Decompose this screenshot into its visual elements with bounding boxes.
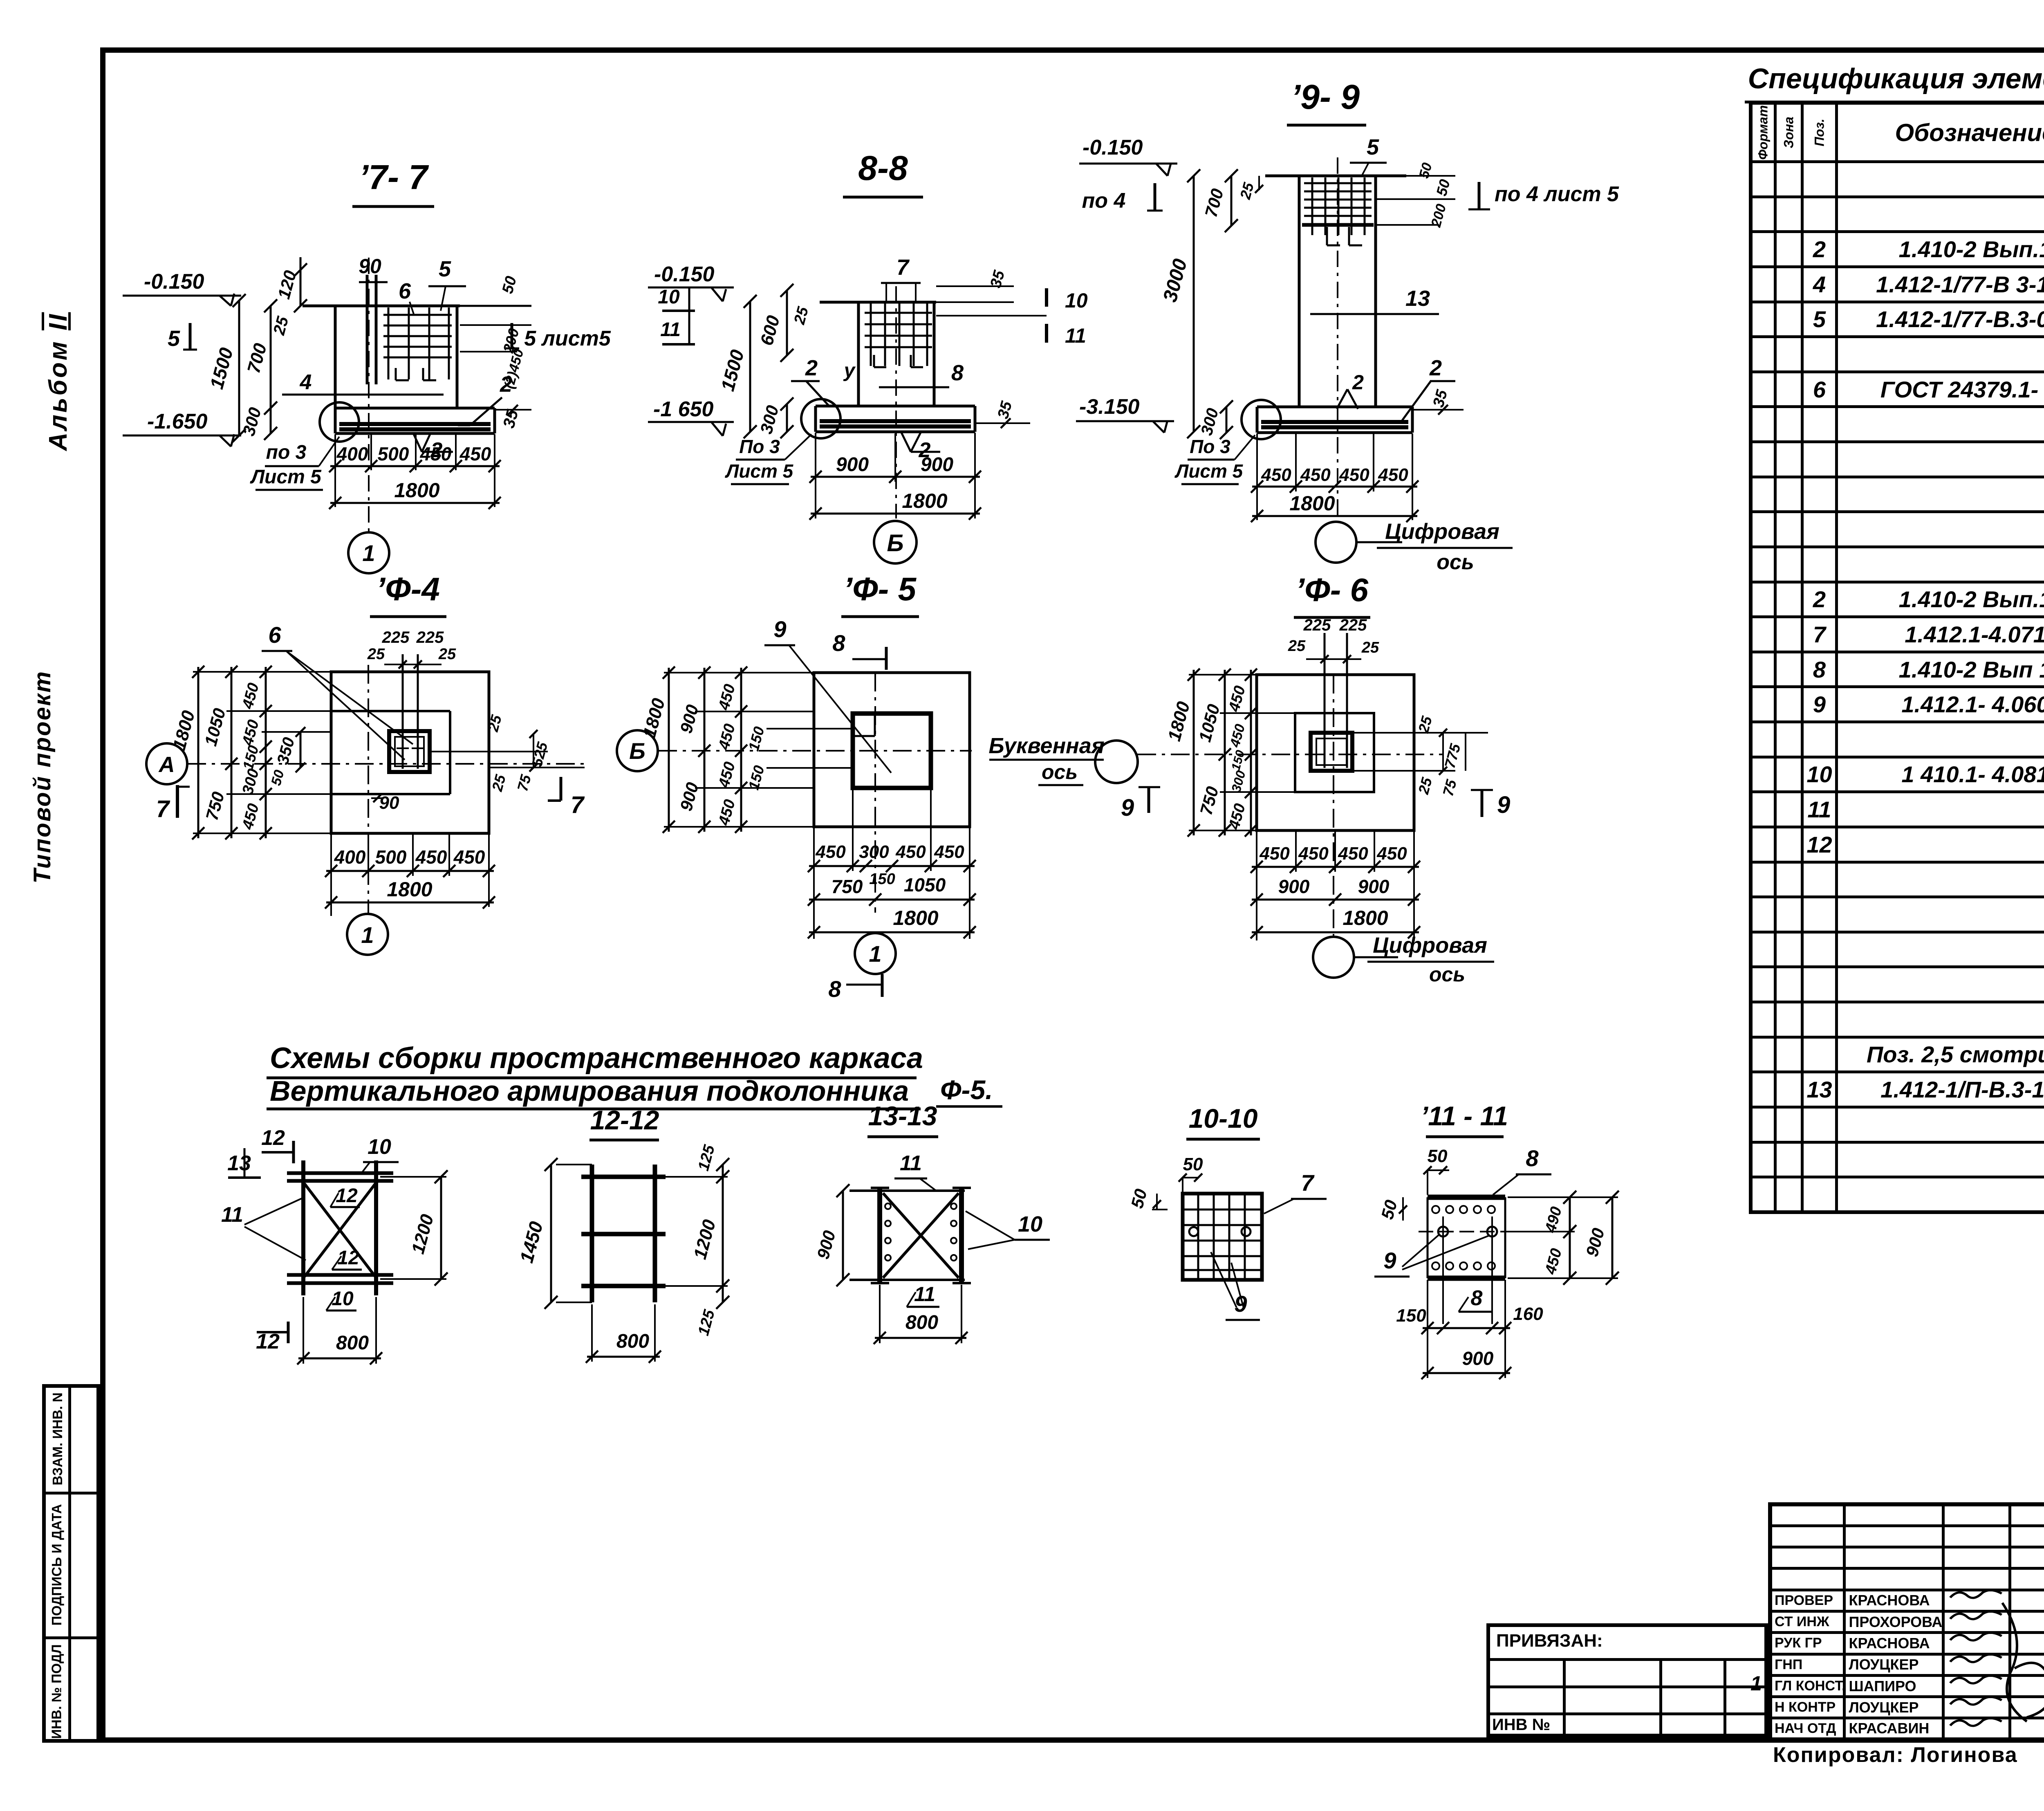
section 7 flag right xyxy=(560,777,563,801)
section 7-7 column rebar cage xyxy=(383,314,452,316)
scheme 11-11 top plate xyxy=(1428,1195,1505,1200)
svg-text:800: 800 xyxy=(336,1332,369,1354)
left strip caption: ВЗАМ.ИНВ.N xyxy=(50,1378,65,1500)
svg-text:750: 750 xyxy=(1196,784,1222,817)
left dim ladder 900 900 xyxy=(704,668,706,832)
plan Ф-4 horizontal axis xyxy=(187,763,585,765)
left dimension 120/25 xyxy=(300,257,302,306)
svg-text:ʼ7- 7: ʼ7- 7 xyxy=(359,158,429,196)
svg-text:50: 50 xyxy=(1433,177,1453,197)
left margin inventory strip table xyxy=(42,1384,100,1743)
section 9-9 axis xyxy=(1337,157,1338,520)
svg-text:5: 5 xyxy=(439,257,451,281)
svg-text:125: 125 xyxy=(695,1308,718,1337)
svg-text:25: 25 xyxy=(1288,637,1306,655)
dim 300 xyxy=(1226,407,1228,433)
svg-text:7: 7 xyxy=(896,255,910,280)
scheme 12-12 ladder xyxy=(515,1105,729,1363)
svg-text:7: 7 xyxy=(1301,1170,1315,1196)
section cut flag 7 below circle А xyxy=(176,785,179,818)
title block: ПРИВЯЗАН table xyxy=(1486,1623,1768,1737)
svg-text:160: 160 xyxy=(1513,1304,1543,1324)
plan Ф-4 anchor bolts xyxy=(402,654,404,769)
scheme A dim 1200 xyxy=(440,1177,442,1279)
svg-text:900: 900 xyxy=(1358,876,1390,897)
svg-text:1: 1 xyxy=(361,922,374,948)
svg-text:450: 450 xyxy=(239,681,262,711)
svg-text:50: 50 xyxy=(1127,1187,1150,1210)
svg-text:300: 300 xyxy=(756,403,782,436)
dim chain 900 900 xyxy=(811,476,980,478)
svg-text:450: 450 xyxy=(934,842,964,862)
svg-text:900: 900 xyxy=(676,780,702,813)
svg-text:по 4: по 4 xyxy=(1082,189,1126,213)
150 leaders into column xyxy=(766,728,853,729)
left strip caption: ИНВ. № ПОДЛ xyxy=(49,1629,65,1754)
scheme 11-11 xyxy=(1374,1101,1619,1379)
bottom dim chain 450 x4 xyxy=(1252,866,1419,868)
svg-text:9: 9 xyxy=(773,616,786,642)
svg-text:10: 10 xyxy=(1065,289,1088,312)
left margin caption: Альбом II xyxy=(44,283,75,480)
svg-text:8: 8 xyxy=(832,630,845,656)
svg-text:25: 25 xyxy=(1361,639,1379,656)
svg-text:4: 4 xyxy=(300,370,312,394)
svg-text:ʼ11 - 11: ʼ11 - 11 xyxy=(1421,1101,1508,1131)
svg-text:-3.150: -3.150 xyxy=(1079,395,1140,419)
svg-text:450: 450 xyxy=(715,722,739,752)
svg-text:900: 900 xyxy=(1462,1348,1494,1369)
svg-text:450: 450 xyxy=(1226,684,1249,714)
plan Ф-6 step contour xyxy=(1295,713,1374,792)
svg-text:450: 450 xyxy=(415,846,447,868)
svg-text:490: 490 xyxy=(1542,1205,1565,1235)
svg-text:ʼ9- 9: ʼ9- 9 xyxy=(1291,78,1360,116)
scheme 12-12 dim 800 xyxy=(587,1356,660,1358)
plan Ф-4 outer footing square xyxy=(331,672,489,833)
svg-text:450: 450 xyxy=(715,682,739,712)
35 mark right xyxy=(1412,409,1464,411)
svg-text:12-12: 12-12 xyxy=(590,1105,659,1135)
svg-text:750: 750 xyxy=(831,876,863,897)
svg-text:500: 500 xyxy=(375,846,407,868)
svg-text:1: 1 xyxy=(869,941,881,967)
svg-text:1800: 1800 xyxy=(1342,907,1388,929)
svg-text:600: 600 xyxy=(757,313,784,348)
plan Ф-6 horizontal axis xyxy=(1137,754,1443,755)
svg-text:7: 7 xyxy=(156,796,170,822)
svg-text:Буквенная: Буквенная xyxy=(988,734,1104,758)
scheme 10-10 square with mesh xyxy=(1183,1194,1262,1280)
svg-text:700: 700 xyxy=(1201,186,1227,219)
left strip caption: ПОДПИСЬ И ДАТА xyxy=(49,1493,65,1636)
right side dims 25 525 75 25 xyxy=(430,751,548,752)
right small dims 50 / 200(2)=450 / 35 xyxy=(460,305,531,307)
svg-text:1450: 1450 xyxy=(515,1219,547,1265)
svg-text:По 3: По 3 xyxy=(739,436,780,457)
svg-text:800: 800 xyxy=(905,1312,938,1333)
svg-text:по 4 лист 5: по 4 лист 5 xyxy=(1495,182,1619,206)
svg-text:1800: 1800 xyxy=(394,479,439,502)
scheme 13-13 end plates xyxy=(877,1188,882,1283)
svg-text:-0.150: -0.150 xyxy=(1083,136,1143,159)
svg-text:10: 10 xyxy=(368,1135,391,1159)
svg-text:1800: 1800 xyxy=(1289,492,1335,515)
scheme 13-13 X bracing xyxy=(883,1193,959,1278)
svg-text:Вертикального армирования по: Вертикального армирования подколонника xyxy=(270,1075,909,1107)
svg-text:Лист 5: Лист 5 xyxy=(725,460,794,482)
svg-text:1500: 1500 xyxy=(206,345,237,391)
dim 1800 xyxy=(811,513,980,515)
section 9-9 top rebar hatch xyxy=(1304,182,1372,184)
left dim ladder 1050 750 xyxy=(231,667,233,838)
cut mark 5 лист5 right xyxy=(511,323,513,348)
svg-text:50: 50 xyxy=(1183,1154,1203,1174)
svg-text:35: 35 xyxy=(995,399,1016,421)
bottom dim 750 1050 xyxy=(809,899,975,901)
extension lines xyxy=(664,672,814,673)
right side dims 25 775 25 75 xyxy=(1352,732,1488,734)
svg-text:Ф-5.: Ф-5. xyxy=(940,1075,993,1105)
svg-text:120: 120 xyxy=(274,268,300,301)
bottom dim 1800 xyxy=(809,931,975,934)
handwritten mark 1 xyxy=(1750,1672,1762,1695)
plan Ф-5 outer footing square xyxy=(814,673,970,827)
svg-text:750: 750 xyxy=(202,790,228,822)
svg-text:150: 150 xyxy=(1396,1306,1426,1326)
svg-text:125: 125 xyxy=(695,1143,718,1173)
svg-text:75: 75 xyxy=(514,772,534,793)
svg-text:2: 2 xyxy=(1429,356,1442,380)
svg-text:900: 900 xyxy=(1582,1226,1608,1259)
svg-text:1050: 1050 xyxy=(904,874,946,895)
svg-text:Цифровая: Цифровая xyxy=(1373,933,1487,958)
svg-text:300: 300 xyxy=(859,842,889,862)
svg-text:450: 450 xyxy=(1226,802,1249,832)
plan Ф-4 column box xyxy=(389,731,430,772)
svg-text:По 3: По 3 xyxy=(1190,436,1230,457)
svg-text:5: 5 xyxy=(168,326,180,351)
plan Ф-5 vertical axis xyxy=(874,673,876,913)
svg-text:450: 450 xyxy=(1338,844,1368,864)
left margin caption: Типовой проект xyxy=(29,658,57,895)
svg-text:900: 900 xyxy=(813,1228,839,1261)
35 tick at footing right xyxy=(975,422,1030,424)
svg-text:400: 400 xyxy=(334,846,366,868)
plan Ф-5 horizontal axis xyxy=(658,750,972,752)
scheme 10-10 xyxy=(1127,1103,1327,1320)
svg-text:Цифровая: Цифровая xyxy=(1385,519,1499,544)
footing rebar mesh xyxy=(1261,420,1408,424)
digit axis circle xyxy=(1313,937,1354,978)
bottom dim 900 900 xyxy=(1252,899,1419,901)
svg-text:9: 9 xyxy=(1497,792,1510,818)
svg-text:А: А xyxy=(158,752,175,777)
svg-text:1800: 1800 xyxy=(387,878,432,901)
svg-text:2: 2 xyxy=(805,356,818,380)
svg-text:13: 13 xyxy=(227,1151,251,1175)
svg-text:25: 25 xyxy=(484,713,505,734)
left dimension 1500 xyxy=(238,301,240,435)
section 9-9 footing xyxy=(1257,406,1412,408)
svg-text:-0.150: -0.150 xyxy=(654,263,715,286)
svg-text:6: 6 xyxy=(268,622,281,648)
svg-text:500: 500 xyxy=(378,443,409,465)
svg-text:2: 2 xyxy=(1352,371,1364,394)
svg-text:900: 900 xyxy=(836,454,869,476)
svg-text:5 лист5: 5 лист5 xyxy=(524,327,611,350)
axis circle 1 xyxy=(855,933,896,974)
svg-text:8: 8 xyxy=(828,976,841,1002)
left dim ladder 450 150 300 450 xyxy=(1250,670,1252,835)
right marks 10 / 11 arrows xyxy=(1045,288,1048,307)
svg-text:25: 25 xyxy=(367,646,385,663)
scheme A X bracing xyxy=(305,1184,375,1277)
svg-text:Лист 5: Лист 5 xyxy=(1174,460,1244,482)
svg-text:ось: ось xyxy=(1429,963,1465,986)
title block: signatures squiggles xyxy=(1941,1587,2044,1742)
svg-text:ʼФ- 5: ʼФ- 5 xyxy=(843,571,917,607)
svg-text:Б: Б xyxy=(629,738,645,764)
plan Ф-4 step contour xyxy=(331,710,450,712)
left dim ladder 1050 750 xyxy=(1224,670,1226,835)
plan Ф-6 outer footing square xyxy=(1257,675,1414,830)
svg-text:25: 25 xyxy=(1415,714,1435,735)
specification table title xyxy=(1745,62,2044,103)
section 8-8 concrete outline xyxy=(820,301,936,304)
350 dim and 50 xyxy=(300,732,302,767)
scheme 11-11 side bars xyxy=(1427,1197,1429,1278)
svg-text:450: 450 xyxy=(715,798,739,828)
svg-text:50: 50 xyxy=(499,274,520,296)
svg-text:1200: 1200 xyxy=(408,1212,438,1256)
svg-text:6: 6 xyxy=(399,279,411,303)
plan Ф-5 column box xyxy=(853,714,931,788)
scheme 10-10 bolt circles xyxy=(1189,1227,1198,1236)
svg-text:50: 50 xyxy=(1428,1146,1448,1166)
svg-text:450: 450 xyxy=(239,718,262,748)
svg-text:3000: 3000 xyxy=(1159,256,1192,304)
scheme 11-11 dim 900 bottom xyxy=(1423,1372,1510,1374)
scheme 11-11 dashed axis with bolts xyxy=(1419,1231,1549,1232)
left dim ladder 1800 xyxy=(668,668,670,832)
svg-text:9: 9 xyxy=(1121,794,1134,821)
left dim ladder 450 450 150 300 450 xyxy=(265,667,267,838)
svg-text:450: 450 xyxy=(1339,465,1369,485)
axis circle 1 xyxy=(348,532,389,573)
svg-text:50: 50 xyxy=(268,768,287,787)
svg-text:400: 400 xyxy=(336,443,368,465)
svg-text:450: 450 xyxy=(1227,723,1248,750)
svg-text:150: 150 xyxy=(1229,749,1247,772)
plan Ф-6 xyxy=(988,616,1510,986)
svg-text:5: 5 xyxy=(1367,135,1379,159)
bottom dim 1800 xyxy=(330,502,500,504)
svg-text:1800: 1800 xyxy=(893,907,938,929)
left dimension 300 xyxy=(270,408,272,433)
plan Ф-5 xyxy=(617,616,976,1002)
svg-text:25: 25 xyxy=(438,646,456,663)
svg-text:450: 450 xyxy=(715,760,739,790)
svg-text:450: 450 xyxy=(420,443,452,465)
svg-text:300: 300 xyxy=(1228,769,1248,794)
svg-text:450: 450 xyxy=(1298,844,1329,864)
svg-text:13-13: 13-13 xyxy=(868,1101,937,1131)
svg-text:1050: 1050 xyxy=(1195,702,1224,744)
svg-text:450: 450 xyxy=(1259,844,1290,864)
left dimension 700 xyxy=(270,306,272,408)
scheme 13-13 rails xyxy=(849,1189,965,1192)
specification table grid xyxy=(1749,101,2044,1214)
section 8-8 xyxy=(648,149,1088,617)
svg-text:450: 450 xyxy=(459,443,491,465)
svg-text:225: 225 xyxy=(1339,616,1367,634)
svg-text:1200: 1200 xyxy=(690,1217,720,1261)
scheme 12-12 dim 1450 xyxy=(550,1165,552,1302)
svg-text:50: 50 xyxy=(1416,161,1435,180)
dim 3000 xyxy=(1193,176,1195,432)
svg-text:225: 225 xyxy=(1303,616,1331,634)
svg-text:12: 12 xyxy=(336,1185,358,1207)
по 4 лист 5 right xyxy=(1478,182,1481,209)
scheme 12-12 dim 125 1200 125 xyxy=(722,1165,724,1302)
svg-text:775: 775 xyxy=(1441,742,1464,770)
svg-text:150: 150 xyxy=(869,871,895,888)
axis circle 1 xyxy=(347,914,388,955)
svg-text:1800: 1800 xyxy=(639,696,669,740)
svg-text:-0.150: -0.150 xyxy=(144,270,204,294)
svg-text:10: 10 xyxy=(1018,1212,1042,1237)
svg-text:9: 9 xyxy=(1383,1248,1396,1273)
svg-text:11: 11 xyxy=(900,1151,922,1175)
svg-text:10-10: 10-10 xyxy=(1189,1103,1258,1133)
scheme A dim 800 xyxy=(298,1358,381,1360)
svg-text:-1 650: -1 650 xyxy=(653,397,714,421)
svg-text:450: 450 xyxy=(1376,844,1407,864)
svg-text:75: 75 xyxy=(1439,777,1460,798)
svg-text:1500: 1500 xyxy=(717,347,748,393)
svg-text:11: 11 xyxy=(914,1283,935,1306)
axis circle Б xyxy=(874,521,917,563)
svg-text:90: 90 xyxy=(359,255,381,278)
svg-text:25: 25 xyxy=(1415,775,1435,796)
svg-text:1800: 1800 xyxy=(1164,699,1194,743)
scheme 12-12 rungs xyxy=(581,1175,666,1179)
svg-text:225: 225 xyxy=(416,628,444,646)
section 7-7 anchor bolts (pos 90) xyxy=(366,275,369,384)
svg-text:8: 8 xyxy=(951,361,964,385)
svg-text:25: 25 xyxy=(791,305,812,327)
svg-text:по 3: по 3 xyxy=(266,442,307,463)
svg-text:8: 8 xyxy=(1526,1145,1539,1171)
svg-text:900: 900 xyxy=(676,702,702,735)
svg-text:800: 800 xyxy=(616,1331,649,1352)
left dim ladder 1800 xyxy=(1193,670,1195,835)
svg-text:11: 11 xyxy=(1065,324,1086,347)
svg-text:ʼФ-4: ʼФ-4 xyxy=(376,571,440,607)
svg-text:8-8: 8-8 xyxy=(858,149,908,187)
svg-text:8: 8 xyxy=(1471,1286,1483,1310)
scheme 11-11 bottom plate xyxy=(1428,1276,1505,1281)
section 7-7 axis line xyxy=(368,258,370,532)
scheme 11-11 dims 150 160 xyxy=(1423,1327,1510,1329)
svg-text:Схемы сборки пространственно: Схемы сборки пространственного каркаса xyxy=(270,1042,923,1075)
svg-text:300: 300 xyxy=(1198,406,1222,438)
svg-text:ʼФ- 6: ʼФ- 6 xyxy=(1295,572,1369,608)
svg-text:10: 10 xyxy=(658,286,680,308)
svg-text:11: 11 xyxy=(660,319,681,341)
svg-text:12: 12 xyxy=(261,1126,285,1150)
bottom dim 1800 xyxy=(1252,931,1419,934)
svg-text:900: 900 xyxy=(921,454,953,476)
svg-text:450: 450 xyxy=(239,802,262,832)
svg-text:13: 13 xyxy=(1405,286,1430,311)
svg-text:900: 900 xyxy=(1278,876,1310,897)
dim 300 xyxy=(786,404,788,432)
svg-text:Лист 5: Лист 5 xyxy=(250,466,322,488)
bottom margin texts xyxy=(1773,1743,2018,1767)
svg-text:у: у xyxy=(843,360,856,381)
svg-text:25: 25 xyxy=(270,314,292,337)
detail circle xyxy=(801,399,840,438)
svg-text:1800: 1800 xyxy=(902,489,947,512)
section 9-9 xyxy=(1076,78,1619,617)
bottom dim chain 400 500 450 450 xyxy=(326,870,494,872)
extension lines xyxy=(1189,674,1257,675)
svg-text:1050: 1050 xyxy=(201,706,229,748)
svg-text:25: 25 xyxy=(489,772,509,793)
right small dims 50 200(2)450 xyxy=(1376,175,1455,177)
section 7-7 footing rebar mesh (pos 2) xyxy=(339,422,491,426)
svg-text:1800: 1800 xyxy=(169,708,199,752)
svg-text:200: 200 xyxy=(1428,202,1449,229)
svg-text:450: 450 xyxy=(1542,1247,1565,1277)
section 7-7 concrete outline xyxy=(303,305,460,307)
plan Ф-6 vertical axis xyxy=(1333,675,1334,936)
plan Ф-6 column box xyxy=(1311,733,1352,771)
svg-text:450: 450 xyxy=(453,846,485,868)
svg-text:11: 11 xyxy=(221,1203,243,1227)
svg-text:300: 300 xyxy=(239,767,262,797)
svg-text:700: 700 xyxy=(244,341,271,375)
cut mark 9 right xyxy=(1481,790,1484,817)
svg-text:-1.650: -1.650 xyxy=(147,410,208,433)
svg-text:25: 25 xyxy=(1237,180,1257,201)
detail circle on footing edge xyxy=(320,402,359,442)
section 9-9 column outline xyxy=(1265,175,1406,177)
scheme A: frame with X bracing xyxy=(221,1126,448,1364)
bottom dim chain 400 500 450 450 xyxy=(330,465,500,467)
scheme 13-13 xyxy=(813,1101,1050,1344)
bottom dim 1800 xyxy=(326,902,494,904)
svg-text:450: 450 xyxy=(895,842,926,862)
plan Ф-5 corner insert mark xyxy=(853,735,875,737)
title block: personnel table xyxy=(1768,1502,2044,1741)
svg-text:150: 150 xyxy=(239,743,262,772)
dim 1800 xyxy=(1252,515,1417,517)
svg-text:7: 7 xyxy=(571,792,585,818)
scheme 13-13 stud dots xyxy=(885,1203,891,1209)
left dim ladder 1800 xyxy=(197,667,199,838)
plan Ф-4 xyxy=(146,622,585,955)
scheme A posts xyxy=(301,1160,305,1295)
axis circle Б xyxy=(617,730,658,771)
plan Ф-4 vertical axis xyxy=(368,665,369,913)
extension lines left xyxy=(193,671,331,673)
svg-text:1: 1 xyxy=(362,540,375,566)
section 8-8 column rebar xyxy=(870,302,872,366)
letter axis circle xyxy=(1095,741,1138,783)
